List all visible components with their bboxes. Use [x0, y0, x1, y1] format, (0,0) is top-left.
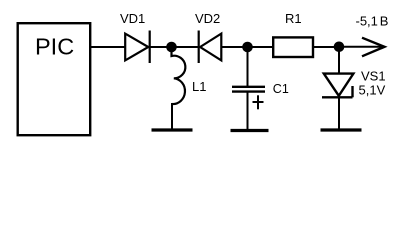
ground under L1: [152, 128, 193, 131]
node A junction dot: [166, 42, 177, 53]
output wire with arrow terminal: [339, 46, 384, 48]
zener diode VS1: [322, 74, 353, 98]
wire PIC to VD1: [90, 46, 125, 48]
wire L1 to ground: [171, 103, 173, 130]
capacitor C1 (polarized): [232, 87, 265, 92]
wire node B to R1: [248, 46, 274, 48]
wire VD1 to node A: [150, 46, 171, 48]
node C junction dot: [334, 42, 345, 53]
svg-text:VD2: VD2: [195, 11, 220, 26]
node B junction dot: [242, 42, 253, 53]
svg-text:R1: R1: [285, 11, 302, 26]
svg-text:C1: C1: [273, 82, 289, 96]
wire R1 to node C: [313, 46, 339, 48]
svg-text:VS1: VS1: [361, 69, 386, 84]
wire node C down to VS1: [338, 47, 340, 73]
diode VD2: [199, 31, 222, 64]
wire C1 to ground: [247, 92, 249, 131]
ground under VS1: [321, 128, 362, 131]
svg-text:VD1: VD1: [120, 11, 145, 26]
svg-text:L1: L1: [192, 79, 206, 94]
diode VD1: [125, 31, 150, 64]
svg-text:-5,1В: -5,1В: [356, 14, 389, 29]
arrow head chevron: [362, 38, 385, 57]
plus sign of C1: [253, 95, 264, 109]
PIC microcontroller box U1: [18, 23, 91, 135]
wire node A to VD2: [172, 46, 199, 48]
inductor L1: [172, 50, 186, 104]
ground under C1: [231, 129, 269, 132]
wire VS1 to ground: [338, 97, 340, 130]
svg-text:PIC: PIC: [35, 34, 74, 60]
resistor R1: [273, 37, 313, 57]
wire node B down to C1: [247, 47, 249, 86]
svg-text:5,1V: 5,1V: [359, 82, 386, 97]
wire VD2 to node B: [221, 46, 247, 48]
